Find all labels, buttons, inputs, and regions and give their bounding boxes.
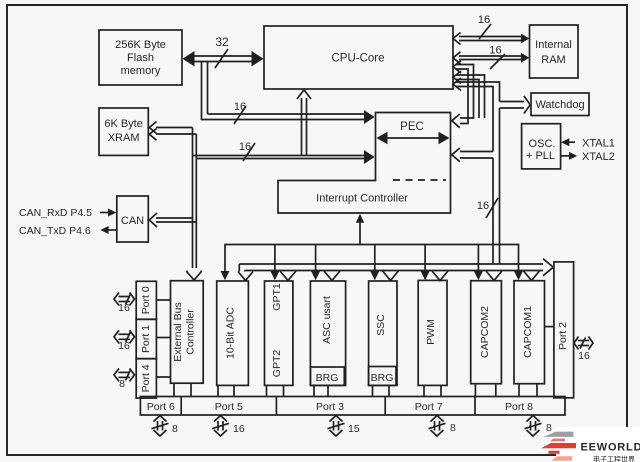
svg-text:16: 16 — [489, 45, 501, 57]
oscillator PLL — [522, 124, 561, 169]
wire CAPCOM1 to Port2 — [545, 326, 554, 328]
svg-text:CAN_RxD P4.5: CAN_RxD P4.5 — [19, 207, 92, 219]
external bus controller — [171, 281, 204, 384]
svg-text:Port 6: Port 6 — [147, 401, 175, 413]
svg-text:XTAL2: XTAL2 — [582, 151, 615, 163]
svg-text:16: 16 — [578, 350, 590, 362]
svg-text:Port 0: Port 0 — [140, 286, 152, 314]
svg-text:Port 7: Port 7 — [415, 401, 443, 413]
wire vertical line to XRAM / CAN / EBC — [149, 122, 201, 281]
svg-text:32: 32 — [215, 35, 229, 49]
svg-text:RAM: RAM — [541, 54, 565, 66]
wire main right vertical bus (16) — [452, 78, 530, 264]
svg-text:Port 8: Port 8 — [505, 401, 533, 413]
svg-text:BRG: BRG — [316, 372, 339, 384]
svg-text:EEWORLD: EEWORLD — [581, 442, 640, 454]
ASC usart with BRG — [310, 281, 345, 385]
wire 32-bit bus flash-CPU — [183, 35, 264, 68]
svg-text:16: 16 — [477, 200, 489, 212]
svg-text:Port 3: Port 3 — [316, 401, 344, 413]
svg-text:16: 16 — [118, 340, 130, 352]
svg-text:+ PLL: + PLL — [526, 150, 555, 162]
PEC + interrupt controller — [278, 113, 451, 214]
svg-text:16: 16 — [233, 423, 245, 435]
svg-text:Port 1: Port 1 — [140, 325, 152, 353]
svg-text:Port 2: Port 2 — [557, 322, 569, 350]
XRAM box — [99, 108, 148, 155]
svg-text:16: 16 — [234, 101, 246, 113]
svg-text:GPT1: GPT1 — [271, 283, 283, 311]
svg-text:BRG: BRG — [371, 372, 394, 384]
wire port5 16 arrow — [212, 416, 245, 437]
EEWORLD logo — [541, 427, 640, 462]
svg-text:16: 16 — [118, 302, 130, 314]
svg-text:8: 8 — [172, 423, 178, 435]
svg-text:CAPCOM2: CAPCOM2 — [479, 306, 491, 358]
wire 16 bus CPU-RAM upper — [453, 14, 529, 45]
CAN box — [117, 196, 149, 242]
svg-text:电子工程世界: 电子工程世界 — [593, 455, 635, 462]
wire XTAL1 — [561, 138, 615, 150]
Port2 box — [554, 262, 574, 398]
svg-text:CAN: CAN — [121, 215, 144, 227]
wire L-bus CPU second — [453, 71, 485, 118]
svg-text:memory: memory — [121, 65, 161, 77]
svg-text:XTAL1: XTAL1 — [582, 138, 615, 150]
wire port7 8 arrow — [429, 416, 457, 437]
svg-text:Controller: Controller — [185, 309, 197, 355]
wire port0 16 arrow — [114, 293, 135, 315]
svg-text:CPU-Core: CPU-Core — [331, 53, 384, 65]
port1 box — [136, 319, 156, 358]
svg-text:SSC: SSC — [375, 314, 387, 336]
svg-text:10-Bit ADC: 10-Bit ADC — [225, 307, 237, 359]
wire 16 bus CPU-RAM lower — [453, 45, 529, 70]
wire vertical bus from 32-bus down to PEC (16) — [202, 62, 375, 125]
wire port stack to EBC connectors — [156, 300, 170, 377]
svg-text:GPT2: GPT2 — [271, 350, 283, 378]
svg-text:PWM: PWM — [425, 319, 437, 345]
10-bit ADC — [217, 281, 249, 385]
watchdog — [531, 93, 589, 116]
CPU-Core U1 — [264, 26, 453, 89]
wire interrupt rail — [221, 214, 524, 280]
svg-text:Internal: Internal — [535, 39, 572, 51]
svg-text:15: 15 — [348, 423, 360, 435]
svg-text:CAN_TxD P4.6: CAN_TxD P4.6 — [19, 225, 91, 237]
svg-text:OSC.: OSC. — [529, 138, 556, 150]
svg-text:256K Byte: 256K Byte — [115, 39, 166, 51]
CAPCOM2 — [471, 281, 502, 384]
svg-text:8: 8 — [450, 422, 456, 434]
wire Port2 16 arrow — [574, 337, 593, 363]
GPT1 GPT2 — [265, 281, 293, 385]
flash memory box — [99, 30, 182, 85]
wire port6 8 arrow — [152, 416, 179, 437]
port4 box — [136, 359, 156, 398]
wire CAN_TxD — [19, 225, 117, 237]
svg-text:Watchdog: Watchdog — [535, 99, 584, 111]
wire port4 8 arrow — [114, 368, 135, 390]
wire lower hollow rail to Port2 — [238, 259, 553, 281]
wire box legs to port row — [174, 383, 537, 396]
svg-text:CAPCOM1: CAPCOM1 — [522, 306, 534, 358]
svg-text:16: 16 — [478, 14, 490, 26]
svg-text:PEC: PEC — [400, 121, 424, 133]
internal RAM — [530, 25, 579, 78]
wire L-bus CPU to PEC right — [452, 61, 474, 128]
wire port8 8 arrow — [525, 416, 553, 437]
wire 16 bus to PEC (second) — [193, 141, 375, 164]
wire CAN_RxD — [19, 207, 116, 219]
PWM — [418, 280, 447, 385]
port row — [140, 397, 565, 416]
port0 box — [136, 281, 156, 319]
svg-text:External Bus: External Bus — [172, 302, 184, 362]
svg-text:Flash: Flash — [127, 52, 154, 64]
svg-text:Port 4: Port 4 — [140, 364, 152, 392]
wire port1 16 arrow — [114, 330, 135, 352]
svg-text:XRAM: XRAM — [108, 132, 140, 144]
svg-text:8: 8 — [546, 422, 552, 434]
wire port3 15 arrow — [328, 416, 360, 437]
CAPCOM1 — [514, 281, 545, 384]
svg-text:6K Byte: 6K Byte — [104, 118, 143, 130]
svg-text:8: 8 — [119, 378, 125, 390]
svg-text:Interrupt Controller: Interrupt Controller — [316, 193, 408, 205]
wire up arrow into CPU bottom — [297, 90, 311, 156]
svg-text:ASC usart: ASC usart — [321, 296, 333, 344]
SSC with BRG — [369, 281, 397, 385]
wire XTAL2 — [561, 151, 615, 163]
svg-text:Port 5: Port 5 — [215, 401, 243, 413]
